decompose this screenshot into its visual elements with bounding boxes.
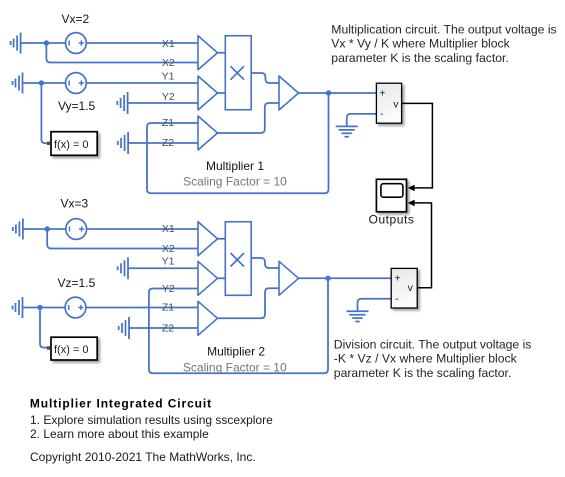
svg-text:Z1: Z1 xyxy=(162,117,174,129)
wire B4 output to voltmeter 2 plus xyxy=(299,277,392,279)
ground (electrical reference, circuit 2 Z row) xyxy=(13,297,23,318)
wire Vx source to X1 input xyxy=(86,42,198,44)
voltmeter U1 xyxy=(376,83,401,123)
svg-text:Scaling Factor = 10: Scaling Factor = 10 xyxy=(183,175,287,189)
wire voltmeter U2 to scope input 2 (black) xyxy=(415,203,432,288)
svg-text:Y1: Y1 xyxy=(162,256,175,268)
multiplier core M2 xyxy=(225,222,251,296)
buffer amp B1 (X inputs circuit 2) xyxy=(198,222,218,256)
svg-text:-: - xyxy=(380,109,383,120)
svg-text:Multiplier 2: Multiplier 2 xyxy=(207,345,265,359)
wire voltmeter U1 to scope input 1 (black) xyxy=(402,103,433,187)
voltage source Vz=1.5 xyxy=(65,297,86,318)
wire buffer B2 to multiplier M2 xyxy=(218,277,226,279)
svg-text:f(x) = 0: f(x) = 0 xyxy=(54,139,89,151)
ground (electrical reference, circuit 1 Z2) xyxy=(118,132,128,154)
ground (electrical reference, circuit 1 Y row) xyxy=(13,73,23,94)
svg-text:+: + xyxy=(395,274,401,285)
svg-text:+: + xyxy=(380,89,386,100)
svg-text:Multiplier Integrated Circuit: Multiplier Integrated Circuit xyxy=(30,397,212,411)
buffer amp B3 (Z inputs circuit 2) xyxy=(198,301,218,335)
wire buffer A3 to output amp A4 xyxy=(218,103,280,133)
wire Vx3 source to X1 input xyxy=(87,228,198,230)
junction node Vz row xyxy=(37,305,42,310)
junction node Vx row xyxy=(44,40,49,45)
junction node Vy row xyxy=(39,80,44,85)
ground (electrical reference, circuit 2 X row) xyxy=(13,219,23,240)
wire buffer A1 to multiplier M1 xyxy=(218,52,226,54)
svg-text:Y2: Y2 xyxy=(162,91,175,103)
svg-text:Vx=2: Vx=2 xyxy=(62,12,90,26)
wire M1 output to output amp A4 xyxy=(251,73,279,83)
svg-text:Vy=1.5: Vy=1.5 xyxy=(58,99,96,113)
ground (electrical reference, circuit 2 Z2) xyxy=(119,317,129,339)
wire ground to Vz source xyxy=(23,307,66,309)
svg-text:Z2: Z2 xyxy=(162,322,174,334)
wire ground to Z2 input xyxy=(128,142,198,144)
svg-text:Division circuit. The output v: Division circuit. The output voltage is-… xyxy=(334,337,532,379)
wire signal ground to voltmeter 2 minus xyxy=(358,299,392,312)
voltmeter U2 xyxy=(391,268,417,308)
wire buffer A2 to multiplier M1 xyxy=(218,92,226,94)
svg-text:X2: X2 xyxy=(162,57,175,69)
wire ground to Z2 input circuit 2 xyxy=(129,327,198,329)
svg-text:Multiplier 1: Multiplier 1 xyxy=(206,159,264,173)
svg-text:v: v xyxy=(408,282,414,294)
svg-text:Scaling Factor = 10: Scaling Factor = 10 xyxy=(183,361,287,375)
wire Vz junction to solver block 2 xyxy=(40,308,47,348)
svg-text:X1: X1 xyxy=(162,223,175,235)
wire feedback W to Z1 xyxy=(147,93,329,193)
svg-text:Z1: Z1 xyxy=(162,301,174,313)
wire signal ground to voltmeter minus xyxy=(347,114,377,127)
wire buffer B3 to output amp B4 xyxy=(218,288,280,318)
svg-text:-: - xyxy=(395,294,398,305)
ground (signal, circuit 1) xyxy=(336,126,358,136)
wire ground to Y2 input xyxy=(128,102,198,104)
svg-text:f(x) = 0: f(x) = 0 xyxy=(54,344,89,356)
wire feedback W2 to Y2 xyxy=(149,278,328,373)
svg-text:X1: X1 xyxy=(162,38,175,50)
svg-text:1. Explore simulation results: 1. Explore simulation results using ssce… xyxy=(30,413,273,427)
wire Vz source to Z1 input xyxy=(86,307,198,309)
wire Vy source to Y1 input xyxy=(86,82,198,84)
buffer amp A2 (Y inputs) xyxy=(198,76,218,110)
wire X2 branch xyxy=(46,43,198,63)
svg-text:Copyright 2010-2021 The MathWo: Copyright 2010-2021 The MathWorks, Inc. xyxy=(30,450,256,464)
ground (electrical reference, circuit 2 Y1) xyxy=(118,257,128,279)
svg-text:v: v xyxy=(393,99,399,111)
buffer amp A3 (Z inputs) xyxy=(198,116,218,150)
ground (electrical reference, circuit 1 Y2) xyxy=(117,92,127,114)
wire ground to Y1 input circuit 2 xyxy=(128,267,198,269)
wire buffer B1 to multiplier M2 xyxy=(218,238,226,240)
svg-text:Y1: Y1 xyxy=(162,70,175,82)
svg-text:X2: X2 xyxy=(162,243,175,255)
wire ground to Vx3 source xyxy=(23,228,66,230)
wire A4 output to voltmeter plus xyxy=(299,92,377,94)
ground (signal, circuit 2) xyxy=(347,311,369,321)
junction node W output 1 xyxy=(326,90,331,95)
svg-text:Vx=3: Vx=3 xyxy=(60,197,88,211)
svg-text:Vz=1.5: Vz=1.5 xyxy=(58,276,96,290)
wire Vy junction to solver block xyxy=(41,83,47,143)
output amp A4 xyxy=(279,76,299,110)
voltage source Vx=2 xyxy=(66,33,87,54)
buffer amp B2 (Y inputs circuit 2) xyxy=(198,261,218,295)
svg-text:2. Learn more about this examp: 2. Learn more about this example xyxy=(30,427,209,441)
svg-text:Outputs: Outputs xyxy=(369,213,415,227)
wire ground to Vy source xyxy=(23,82,66,84)
multiplier core M1 xyxy=(225,36,251,110)
buffer amp A1 (X inputs) xyxy=(198,36,218,70)
scope block Outputs xyxy=(376,179,414,212)
solver config block f(x)=0 circuit 2 xyxy=(47,337,97,360)
svg-text:Z2: Z2 xyxy=(162,137,174,149)
wire X2 branch circuit 2 xyxy=(47,229,198,249)
voltage source Vx=3 xyxy=(66,219,87,240)
voltage source Vy=1.5 xyxy=(66,73,87,94)
svg-text:Multiplication circuit. The ou: Multiplication circuit. The output volta… xyxy=(331,23,556,65)
junction node Vx3 row xyxy=(45,226,50,231)
svg-text:Y2: Y2 xyxy=(162,283,175,295)
solver config block f(x)=0 circuit 1 xyxy=(47,132,97,156)
wire M2 output to output amp B4 xyxy=(251,258,279,268)
ground (electrical reference, circuit 1 X row) xyxy=(11,33,21,54)
wire ground to Vx source xyxy=(21,42,66,44)
output amp B4 xyxy=(279,261,299,295)
junction node W output 2 xyxy=(325,276,330,281)
